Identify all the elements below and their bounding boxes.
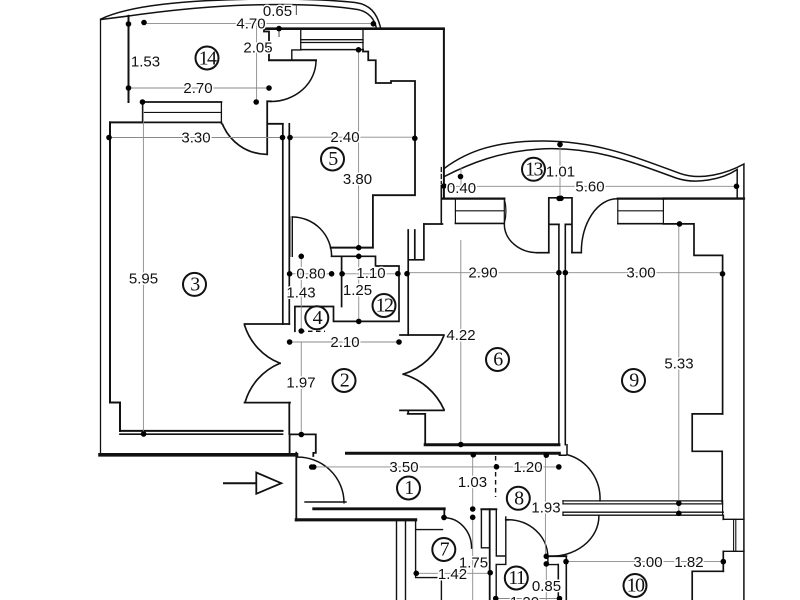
svg-text:4.22: 4.22 [446,327,475,344]
svg-text:3.00: 3.00 [633,554,662,571]
node room14 [196,47,219,70]
dim 0.40 5.60 line [444,185,737,187]
svg-text:1.97: 1.97 [286,375,315,392]
dim 4.22 line [460,240,462,445]
svg-text:3.30: 3.30 [181,130,210,147]
door D26 arcs [403,336,444,374]
wall shaft right vertical [443,29,445,198]
dim 3.00 line [565,272,722,274]
door D26 leaves (room2-room6) [400,335,444,410]
svg-text:0.40: 0.40 [447,180,476,197]
door D6b arc (balcony13 to room6) [504,224,537,253]
arrow entry [224,482,257,484]
wall pier room11/room10 [546,555,567,557]
dim 1.10 line [342,273,398,275]
window W3-top (room3 north) [143,102,222,122]
door D9b arc [581,199,617,253]
dim 2.05 line [256,24,258,102]
door D11 wall stub + arc (hall8 to room11) [506,519,508,521]
door D4 arc [292,217,331,256]
svg-text:1.42: 1.42 [438,566,467,583]
wall room10 right + window WC [722,515,724,571]
wall outer-left boundary [100,19,102,454]
wall room7 north thick [296,518,415,521]
svg-text:1.03: 1.03 [458,474,487,491]
wall hall south lines [305,501,346,503]
door D10 arc (hall8 to room10) [548,516,599,556]
dim 2.10 line [290,341,399,343]
wall room3/room2 double [283,124,290,324]
svg-text:2.90: 2.90 [468,265,497,282]
door D7 arc (hall1 to room7) [444,518,472,548]
svg-text:1.20: 1.20 [510,594,539,600]
window WB (room9 north) [618,197,664,199]
door ENTRY arc [296,457,344,503]
svg-text:0.85: 0.85 [532,578,561,595]
svg-text:10: 10 [627,575,645,597]
svg-text:4.70: 4.70 [236,16,265,33]
svg-text:1.10: 1.10 [356,265,385,282]
niche12 outline [295,256,399,331]
svg-text:2.10: 2.10 [330,334,359,351]
dim 1.43 line [300,256,302,331]
node room3 [183,273,206,296]
dim 0.80 line [290,273,332,275]
wall top-right thick [663,197,744,199]
door D32 double leaves (room3-room2) [245,324,291,403]
wall room3 top-left [110,121,143,123]
wall room2 bottom-left pieces [289,403,316,456]
svg-text:1: 1 [404,477,413,499]
svg-text:1.20: 1.20 [513,459,542,476]
dim 1.01 line [559,145,561,199]
svg-text:3.80: 3.80 [343,171,372,188]
dim 1.42 line [416,572,490,574]
node room8 [507,487,530,510]
dim 1.97 line [300,342,302,434]
svg-text:5.60: 5.60 [575,178,604,195]
dashed opening hall1/hall8 [495,456,497,497]
svg-text:1.53: 1.53 [131,54,160,71]
node room12 [373,294,396,317]
wall room14 left [128,16,130,102]
svg-text:0.80: 0.80 [296,265,325,282]
wall room6/room9 double [559,224,565,444]
svg-text:5.33: 5.33 [664,356,693,373]
dim 2.90 line [408,272,559,274]
wall balcony13 curve inner [444,149,737,199]
wall top center thick [264,27,444,30]
node room7 [432,538,455,561]
svg-text:13: 13 [525,158,543,180]
svg-text:11: 11 [508,567,525,589]
wall slot room9/room10 [563,501,723,504]
door D9b leaf (balcony13 to room9) [572,252,581,254]
node room13 [522,158,545,181]
wall room6 top [424,223,443,225]
dim 3.80 line [358,50,360,248]
wall room9 ne step [663,224,722,414]
dim 1.03 line [472,455,474,509]
dim 0.40 tick [460,168,462,186]
dim 2.40 line [290,136,415,138]
node room5 [321,148,344,171]
wall entry left vertical [295,453,297,521]
dim 2.70 line [129,87,270,89]
svg-text:14: 14 [199,48,217,70]
node room10 [624,574,647,597]
node room6 [486,348,509,371]
dim tick at 279 [278,29,280,37]
window W-top (above room5) [301,29,363,50]
dim 1.25 line [358,256,360,321]
svg-text:2.40: 2.40 [330,129,359,146]
wall balcony13 curve outer [444,141,744,600]
wall room2 bottom-right jog [408,410,426,444]
svg-text:2.70: 2.70 [183,80,212,97]
svg-text:0.65: 0.65 [263,3,292,20]
wall pier between balcony doors [549,198,572,253]
wall room6 bottom thick [425,443,559,446]
door D32 arcs [245,325,281,363]
door D5 arc (room5 entry) [271,61,316,102]
svg-text:1.01: 1.01 [546,163,575,180]
wall 7/8 pier [481,508,496,510]
wall room5 right steps [363,50,415,248]
dim 4.70 line [144,23,373,25]
wall hall/room6 divider upper [408,224,424,335]
dim 3.00 1.82 line [566,561,723,563]
svg-text:3.00: 3.00 [626,265,655,282]
wall above niche12 [331,247,373,249]
window sill left piece [292,50,301,60]
svg-text:3.50: 3.50 [389,459,418,476]
dim 1.93 line [544,455,546,556]
svg-text:5.95: 5.95 [129,271,158,288]
wall 7/11 double [496,509,506,600]
door D4 leaf (room5 to room4) [290,217,293,256]
wall hall bottom band [347,452,560,455]
dim 5.33 line [678,224,680,513]
wall room3 bottom second line [120,433,283,435]
dashed door opening room4 [300,330,325,332]
wall room7 left double [397,520,406,600]
wall room3 top-right jamb [267,101,283,154]
node room11 [505,567,528,590]
dim 1.20 bottom line [496,598,560,600]
wall lobby bottom + door5 leaf [269,59,316,61]
dim 0.65 ticks [264,4,297,15]
wall bottom-left outer [100,453,297,457]
wall room3 left [110,122,283,431]
node room4 [305,306,328,329]
svg-text:2: 2 [340,370,349,392]
node room9 [622,369,645,392]
door D14 arc (room14 to room3) [223,124,266,154]
svg-text:1.25: 1.25 [343,282,372,299]
svg-text:1.93: 1.93 [531,500,560,517]
svg-text:1.82: 1.82 [674,554,703,571]
room7 interior walls [416,519,443,600]
dim 0.85 line [545,564,547,600]
door D9 arc [567,455,600,501]
wall room10 bottom step [692,571,723,600]
window WA lines [455,210,504,212]
dim 1.75 line [472,517,474,600]
wall balcony14 curve outer [101,0,381,27]
wall balcony13 sill [442,197,504,199]
wall room9 se niche [692,414,722,502]
dim 5.95 line [142,102,144,434]
dim 3.30 line [109,137,283,139]
node room2 [333,369,356,392]
svg-text:12: 12 [376,295,393,317]
svg-text:1.43: 1.43 [286,284,315,301]
door D9 leaf pier (hall8 to room9) [559,445,567,456]
dim 3.50 1.20 line [312,466,558,468]
svg-text:2.05: 2.05 [243,40,272,57]
wall balcony13 left pier [440,186,442,225]
wall balcony14 curve inner [101,5,377,29]
wall top-left step of lobby [264,30,269,60]
node room1 [397,477,420,500]
